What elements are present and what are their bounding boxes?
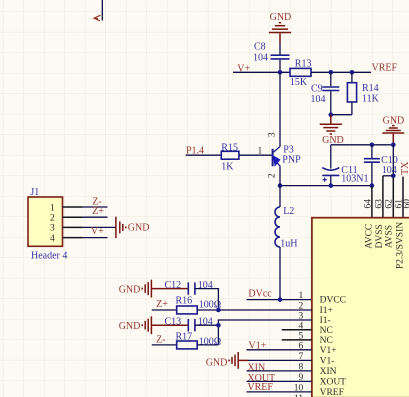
svg-text:1: 1: [50, 203, 55, 213]
svg-text:L2: L2: [283, 206, 294, 217]
power port GND (right, above AVSS/DVSS net): [382, 115, 404, 144]
net label DVcc: [248, 289, 272, 300]
pin number 1 (P3 base): [258, 147, 263, 157]
wire XOUT row: [247, 380, 312, 382]
capacitor C11: [322, 165, 368, 185]
power port GND (below C9): [320, 115, 344, 146]
svg-text:I1+: I1+: [320, 306, 333, 316]
wire (V+ to emitter): [279, 72, 281, 146]
wire (top vertical net stub): [101, 0, 103, 21]
wire (C12 to I1+ node): [195, 289, 219, 310]
svg-text:AVSS: AVSS: [385, 225, 395, 248]
wire (bend to pin 63): [383, 176, 393, 218]
net label V+: [237, 63, 250, 74]
svg-text:GND: GND: [383, 115, 405, 126]
svg-text:V1-: V1-: [320, 357, 335, 367]
wire GND net horizontal: [331, 144, 394, 146]
junction: [278, 70, 283, 75]
svg-text:Z+: Z+: [156, 299, 168, 310]
wire: [279, 247, 281, 300]
capacitor C13: [165, 317, 213, 332]
svg-text:11K: 11K: [362, 94, 380, 105]
net label P1.4: [186, 145, 204, 156]
net label Z-: [156, 334, 165, 345]
svg-text:1K: 1K: [221, 162, 234, 173]
connector J1: [28, 187, 67, 261]
pin 64 (AVCC): [364, 199, 375, 249]
junction: [370, 143, 375, 148]
resistor R17: [176, 331, 222, 349]
junction: [278, 297, 283, 302]
svg-text:5: 5: [298, 332, 303, 342]
svg-text:DVSS: DVSS: [375, 224, 385, 248]
svg-text:2: 2: [50, 214, 55, 224]
net label TX: [400, 161, 409, 175]
wire: [330, 72, 332, 86]
svg-text:XIN: XIN: [320, 367, 337, 377]
power port GND (J1 pin 3): [116, 217, 150, 238]
pin 11 (clipped): [294, 394, 303, 397]
svg-text:V1+: V1+: [320, 346, 337, 356]
junction: [350, 70, 355, 75]
svg-text:R14: R14: [362, 83, 379, 94]
wire I1+ row: [197, 309, 312, 311]
svg-text:GND: GND: [119, 321, 141, 332]
wire (collector down): [279, 166, 281, 207]
pin 5 (NC): [282, 332, 333, 346]
svg-text:VREF: VREF: [320, 388, 344, 397]
pin 63 (DVSS): [374, 199, 385, 249]
svg-text:NC: NC: [320, 336, 333, 346]
svg-text:VREF: VREF: [372, 62, 398, 73]
wire: [330, 91, 332, 114]
svg-text:C12: C12: [165, 280, 182, 291]
wire VREF row: [247, 391, 312, 393]
svg-text:TX: TX: [400, 161, 409, 175]
svg-text:AVCC: AVCC: [364, 224, 374, 249]
svg-text:DVcc: DVcc: [248, 289, 272, 300]
svg-text:C13: C13: [165, 317, 182, 328]
pin 8 (XIN): [298, 363, 336, 377]
junction: [391, 174, 396, 179]
wire DVcc row: [247, 299, 312, 301]
capacitor C9: [311, 83, 340, 105]
wire: [331, 114, 352, 116]
wire (C13 to I1- node): [195, 324, 219, 326]
svg-text:XOUT: XOUT: [320, 378, 347, 388]
resistor R15: [221, 142, 239, 172]
svg-text:GND: GND: [206, 358, 228, 369]
wire V1+ row: [247, 349, 312, 351]
svg-text:Z-: Z-: [156, 334, 165, 345]
svg-text:60: 60: [402, 199, 409, 209]
capacitor C8: [253, 42, 290, 64]
junction: [216, 308, 221, 313]
junction: [391, 143, 396, 148]
wire: [83, 206, 108, 208]
junction: [329, 112, 334, 117]
wire (pin 61): [402, 177, 404, 218]
pin J1-3: [63, 226, 83, 228]
transistor P3: [267, 132, 301, 178]
wire: [351, 72, 353, 82]
wire: [83, 226, 116, 228]
svg-text:104: 104: [311, 94, 326, 105]
net label XIN: [247, 362, 265, 373]
pin J1-2: [63, 216, 83, 218]
svg-text:1: 1: [298, 291, 303, 301]
no-ERC marker: [94, 15, 101, 21]
power port GND (C12 row): [119, 280, 189, 298]
svg-text:PNP: PNP: [282, 155, 301, 166]
wire: [197, 344, 218, 346]
capacitor C10: [364, 155, 398, 176]
pin 10 (VREF): [294, 384, 344, 397]
svg-text:1: 1: [258, 147, 263, 157]
wire: [239, 154, 272, 156]
wire: [83, 237, 108, 239]
svg-text:NC: NC: [320, 326, 333, 336]
wire: [330, 145, 332, 169]
pin 7 (V1-): [298, 352, 334, 366]
svg-text:100Ω: 100Ω: [199, 337, 221, 348]
svg-text:XIN: XIN: [247, 362, 265, 373]
svg-text:V+: V+: [91, 226, 104, 237]
svg-text:3: 3: [267, 132, 277, 137]
net label V+ (J1): [91, 226, 104, 237]
pin 9 (XOUT): [298, 373, 346, 387]
pin 62 (AVSS): [384, 199, 394, 248]
svg-text:103N1: 103N1: [341, 174, 368, 185]
resistor R16: [176, 295, 222, 314]
svg-text:C8: C8: [254, 42, 266, 53]
svg-text:104: 104: [198, 317, 213, 328]
net label XOUT: [247, 373, 275, 384]
svg-text:R16: R16: [176, 295, 193, 306]
pin 3 (I1-): [298, 312, 330, 326]
pin 6 (V1+): [298, 342, 336, 356]
svg-text:62: 62: [384, 199, 394, 209]
net label V1+: [249, 340, 267, 351]
wire V1- row: [248, 359, 312, 361]
svg-text:3: 3: [50, 224, 55, 234]
svg-text:DVCC: DVCC: [320, 296, 346, 306]
net label VREF (pin 10): [247, 382, 273, 393]
pin 4 (NC): [282, 322, 333, 336]
net label Z+: [156, 299, 168, 310]
wire: [330, 175, 332, 185]
resistor R13: [290, 58, 312, 88]
resistor R14: [347, 83, 379, 105]
pin 2 (I1+): [298, 302, 332, 316]
svg-text:63: 63: [374, 199, 384, 209]
pin 61 (P2.3/SVSIN): [395, 199, 406, 269]
power port GND (top, above C8): [269, 12, 291, 43]
wire AVCC rail: [280, 185, 372, 187]
IC U1 block: [312, 218, 409, 397]
wire: [371, 163, 373, 186]
net label VREF: [372, 62, 398, 73]
svg-text:GND: GND: [119, 285, 141, 296]
net label Z+ (J1): [92, 206, 104, 217]
wire: [371, 145, 373, 158]
svg-text:Header 4: Header 4: [31, 250, 67, 261]
svg-text:15K: 15K: [290, 77, 308, 88]
wire: [186, 154, 222, 156]
wire: [311, 71, 371, 73]
pin 60 (clipped): [402, 199, 409, 209]
wire: [279, 60, 281, 73]
svg-text:64: 64: [364, 199, 374, 209]
wire XIN row: [247, 370, 312, 372]
wire (GND to pin 62): [392, 145, 394, 218]
svg-text:1uH: 1uH: [280, 238, 297, 249]
junction: [278, 183, 283, 188]
svg-text:C9: C9: [311, 83, 323, 94]
svg-text:2: 2: [267, 173, 277, 178]
wire: [152, 309, 177, 311]
junction: [370, 183, 375, 188]
junction: [329, 183, 334, 188]
svg-text:P3: P3: [283, 144, 294, 155]
svg-text:Z+: Z+: [92, 206, 104, 217]
pin 1 (DVCC): [298, 291, 346, 305]
wire: [83, 216, 108, 218]
svg-text:104: 104: [253, 53, 268, 64]
svg-text:GND: GND: [270, 12, 292, 23]
wire (to pin 64): [371, 186, 373, 218]
svg-text:104: 104: [198, 280, 213, 291]
svg-text:GND: GND: [128, 223, 150, 234]
pin J1-1: [63, 206, 83, 208]
pin J1-4: [63, 237, 83, 239]
svg-text:4: 4: [50, 234, 55, 244]
capacitor C12: [165, 280, 213, 295]
wire: [279, 43, 281, 54]
svg-text:P2.3/SVSIN: P2.3/SVSIN: [395, 222, 405, 269]
svg-text:4: 4: [298, 322, 303, 332]
inductor L2: [275, 206, 297, 249]
wire V+ rail: [233, 71, 290, 73]
power port GND (C13 row): [119, 316, 189, 334]
wire: [351, 102, 353, 115]
svg-text:I1-: I1-: [320, 316, 331, 326]
power port GND (V1- pin 7): [206, 352, 248, 369]
wire: [152, 344, 177, 346]
wire I1- row: [218, 320, 312, 345]
junction: [216, 323, 221, 328]
net label Z- (J1): [92, 197, 101, 208]
junction: [329, 70, 334, 75]
